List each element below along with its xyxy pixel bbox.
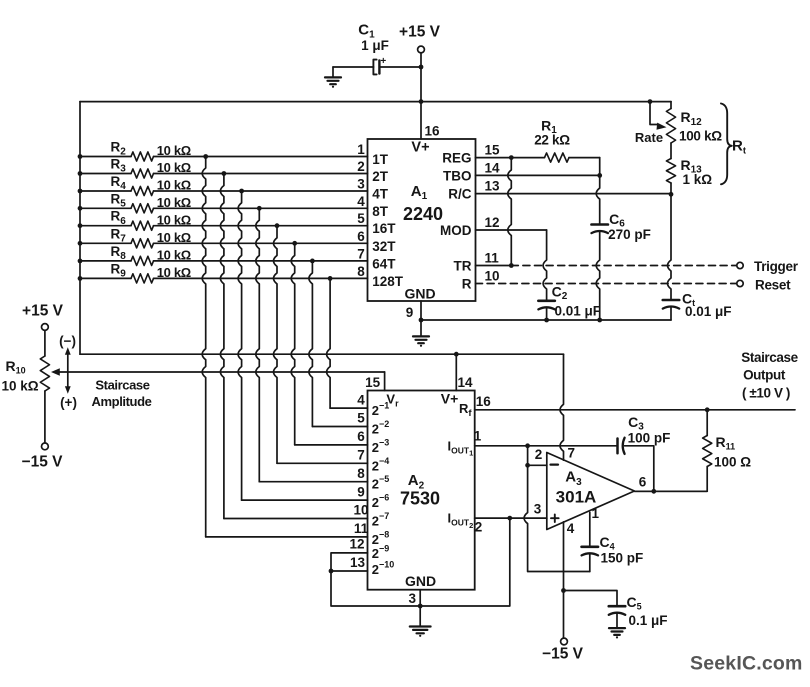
svg-text:10 kΩ: 10 kΩ bbox=[157, 160, 191, 175]
svg-text:5: 5 bbox=[357, 211, 365, 226]
svg-text:0.01 μF: 0.01 μF bbox=[555, 304, 602, 319]
svg-text:7: 7 bbox=[568, 445, 576, 460]
svg-text:301A: 301A bbox=[556, 488, 597, 507]
svg-text:7: 7 bbox=[357, 448, 365, 463]
svg-text:100 pF: 100 pF bbox=[628, 431, 671, 446]
svg-text:10: 10 bbox=[353, 503, 368, 518]
svg-text:100 Ω: 100 Ω bbox=[714, 454, 751, 469]
svg-text:V+: V+ bbox=[411, 139, 429, 155]
svg-text:10 kΩ: 10 kΩ bbox=[157, 143, 191, 158]
svg-text:8T: 8T bbox=[372, 204, 389, 219]
svg-text:15: 15 bbox=[485, 143, 501, 158]
svg-text:10 kΩ: 10 kΩ bbox=[157, 195, 191, 210]
svg-text:1: 1 bbox=[592, 506, 600, 521]
svg-text:−15 V: −15 V bbox=[542, 646, 584, 663]
svg-text:11: 11 bbox=[354, 521, 369, 536]
svg-text:(−): (−) bbox=[59, 334, 76, 349]
svg-text:TBO: TBO bbox=[443, 168, 472, 183]
svg-text:Rate: Rate bbox=[635, 130, 663, 145]
svg-text:32T: 32T bbox=[372, 239, 396, 254]
svg-text:16T: 16T bbox=[372, 221, 396, 236]
svg-text:100 kΩ: 100 kΩ bbox=[679, 129, 722, 144]
svg-text:REG: REG bbox=[442, 151, 471, 166]
svg-text:(+): (+) bbox=[60, 395, 77, 410]
svg-text:Amplitude: Amplitude bbox=[92, 394, 152, 409]
svg-text:14: 14 bbox=[485, 160, 501, 175]
svg-text:GND: GND bbox=[404, 286, 435, 302]
svg-text:Staircase: Staircase bbox=[95, 378, 149, 393]
svg-text:3: 3 bbox=[409, 591, 417, 606]
svg-text:V+: V+ bbox=[441, 390, 459, 406]
svg-text:1 kΩ: 1 kΩ bbox=[683, 172, 713, 187]
svg-text:2: 2 bbox=[357, 159, 365, 174]
svg-text:Reset: Reset bbox=[755, 278, 791, 293]
svg-text:0.1 μF: 0.1 μF bbox=[629, 613, 668, 628]
svg-text:12: 12 bbox=[485, 215, 500, 230]
svg-text:Output: Output bbox=[743, 368, 786, 383]
svg-text:1: 1 bbox=[474, 429, 482, 444]
svg-text:4: 4 bbox=[567, 521, 575, 536]
svg-text:10 kΩ: 10 kΩ bbox=[157, 230, 191, 245]
svg-text:2240: 2240 bbox=[403, 204, 443, 224]
svg-text:8: 8 bbox=[357, 466, 365, 481]
svg-text:150 pF: 150 pF bbox=[601, 550, 644, 565]
svg-text:2T: 2T bbox=[372, 169, 389, 184]
svg-text:8: 8 bbox=[357, 264, 365, 279]
svg-text:Trigger: Trigger bbox=[754, 259, 799, 274]
svg-text:10 kΩ: 10 kΩ bbox=[157, 178, 191, 193]
svg-text:10 kΩ: 10 kΩ bbox=[2, 379, 39, 394]
svg-text:7: 7 bbox=[357, 246, 365, 261]
svg-text:4T: 4T bbox=[372, 187, 389, 202]
svg-text:R/C: R/C bbox=[448, 187, 472, 202]
svg-text:6: 6 bbox=[357, 229, 365, 244]
svg-text:16: 16 bbox=[476, 394, 492, 409]
svg-text:2: 2 bbox=[535, 447, 543, 462]
svg-text:4: 4 bbox=[357, 392, 365, 407]
svg-text:15: 15 bbox=[365, 375, 381, 390]
svg-text:MOD: MOD bbox=[440, 223, 472, 238]
svg-text:22 kΩ: 22 kΩ bbox=[534, 132, 570, 147]
svg-text:6: 6 bbox=[639, 475, 647, 490]
svg-text:128T: 128T bbox=[372, 274, 404, 289]
svg-text:14: 14 bbox=[457, 375, 473, 390]
svg-text:3: 3 bbox=[534, 502, 542, 517]
svg-text:16: 16 bbox=[425, 124, 441, 139]
svg-text:TR: TR bbox=[454, 259, 472, 274]
svg-text:10 kΩ: 10 kΩ bbox=[157, 265, 191, 280]
svg-text:( ±10 V ): ( ±10 V ) bbox=[742, 386, 790, 401]
svg-text:12: 12 bbox=[349, 537, 364, 552]
svg-text:2: 2 bbox=[475, 520, 483, 535]
svg-text:+: + bbox=[380, 56, 386, 67]
svg-text:11: 11 bbox=[485, 251, 500, 266]
svg-text:1: 1 bbox=[357, 142, 365, 157]
svg-text:9: 9 bbox=[406, 305, 414, 320]
svg-text:0.01 μF: 0.01 μF bbox=[685, 304, 732, 319]
svg-text:13: 13 bbox=[485, 179, 501, 194]
svg-text:+15 V: +15 V bbox=[22, 303, 64, 320]
svg-text:6: 6 bbox=[357, 429, 365, 444]
svg-text:270 pF: 270 pF bbox=[608, 227, 651, 242]
svg-text:10 kΩ: 10 kΩ bbox=[157, 248, 191, 263]
svg-text:5: 5 bbox=[357, 411, 365, 426]
svg-text:9: 9 bbox=[357, 484, 365, 499]
svg-text:1 μF: 1 μF bbox=[361, 38, 389, 53]
svg-text:10: 10 bbox=[485, 269, 500, 284]
svg-text:SeekIC.com: SeekIC.com bbox=[690, 653, 803, 675]
svg-text:−15 V: −15 V bbox=[22, 454, 64, 471]
svg-text:13: 13 bbox=[350, 555, 366, 570]
svg-text:R: R bbox=[462, 277, 472, 292]
svg-text:1T: 1T bbox=[372, 152, 389, 167]
svg-text:3: 3 bbox=[357, 177, 365, 192]
svg-text:Staircase: Staircase bbox=[741, 350, 798, 365]
svg-text:GND: GND bbox=[405, 573, 436, 589]
svg-text:10 kΩ: 10 kΩ bbox=[157, 212, 191, 227]
svg-text:+15 V: +15 V bbox=[399, 24, 441, 41]
svg-text:4: 4 bbox=[357, 194, 365, 209]
svg-text:7530: 7530 bbox=[400, 488, 440, 508]
svg-text:64T: 64T bbox=[372, 256, 396, 271]
